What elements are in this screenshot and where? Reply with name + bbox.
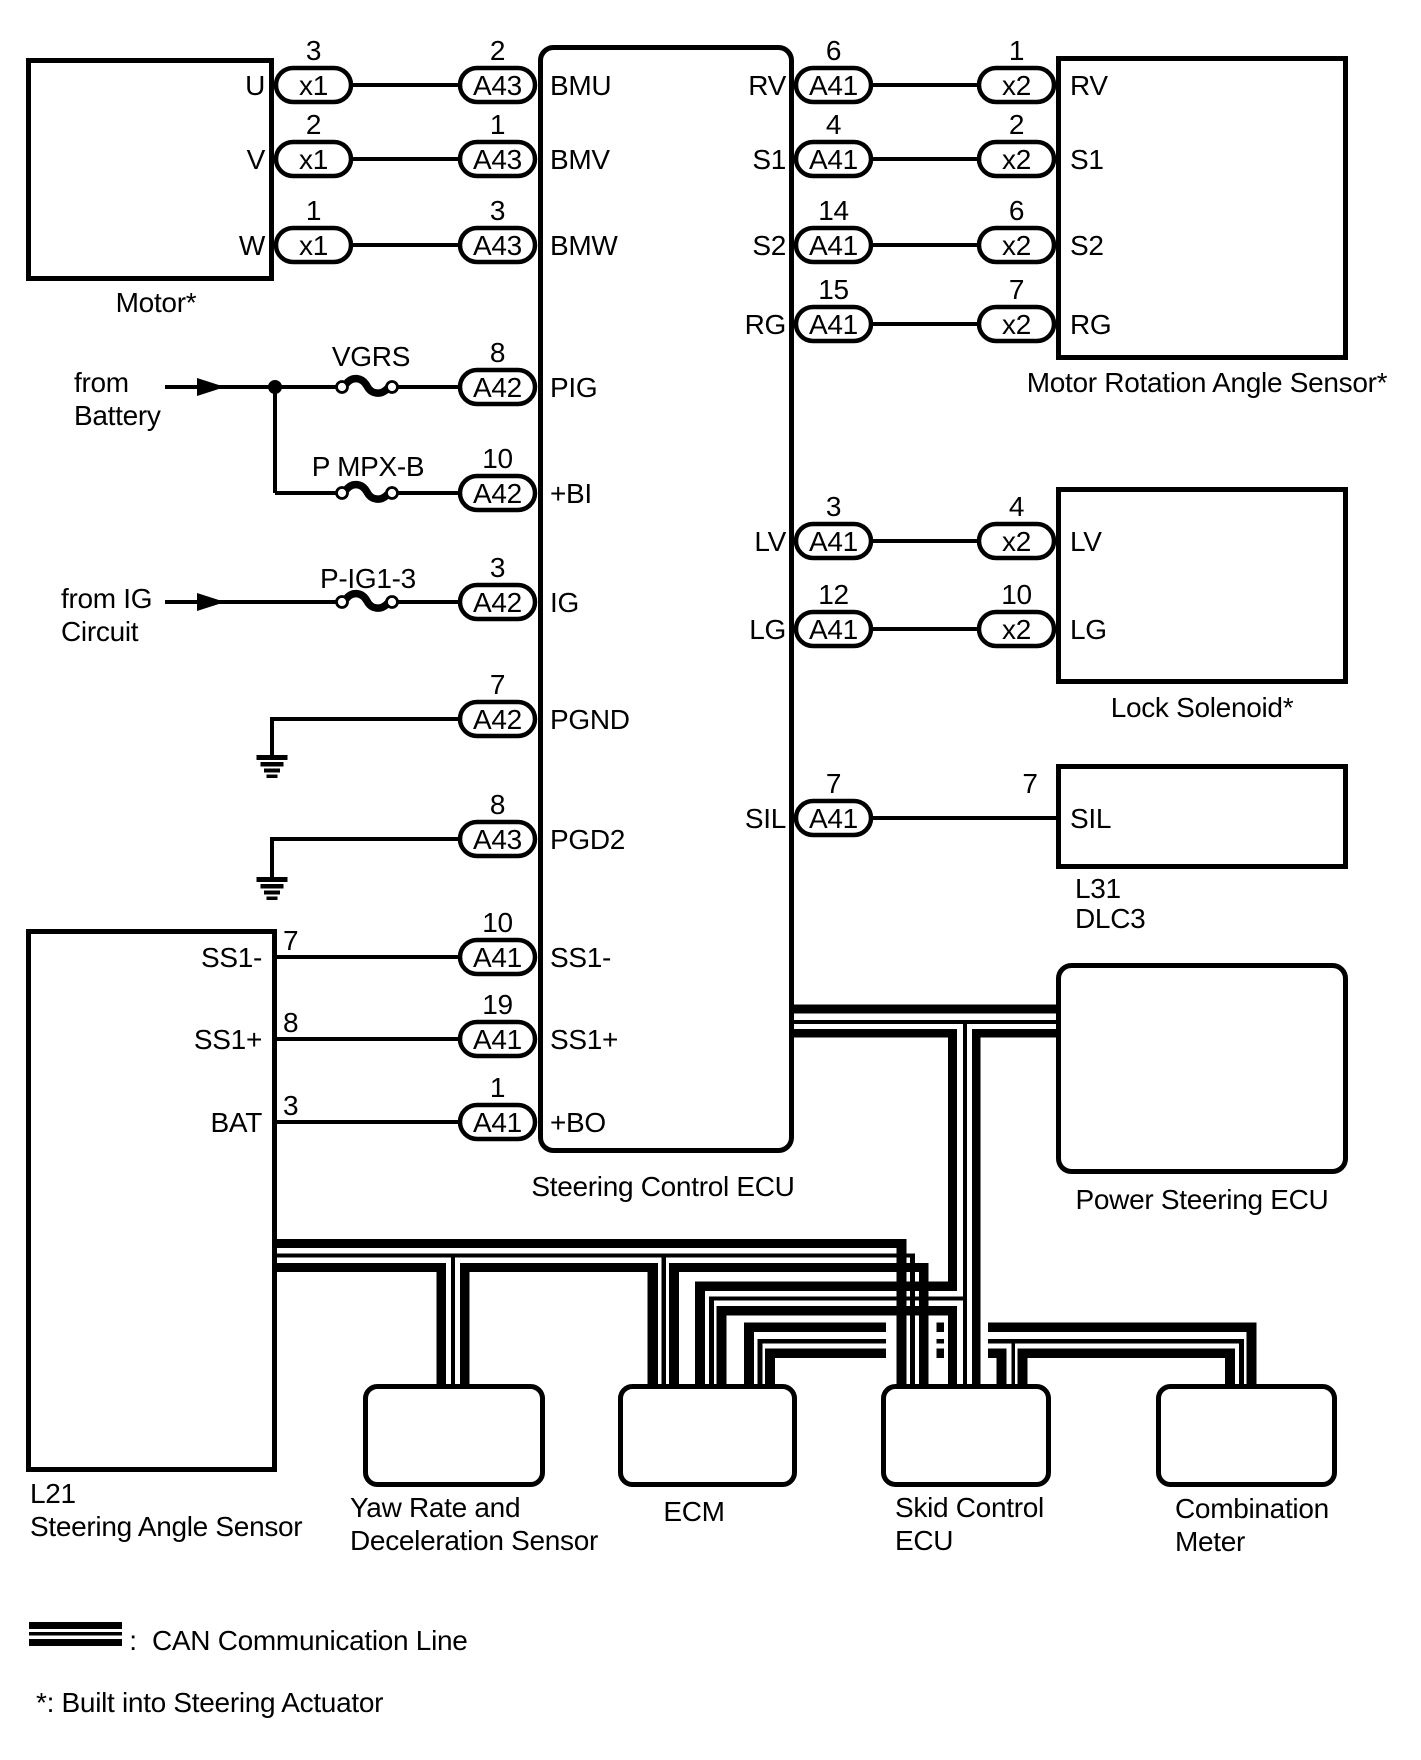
svg-text:7: 7: [1009, 274, 1024, 305]
svg-text:Lock Solenoid*: Lock Solenoid*: [1111, 692, 1294, 723]
svg-text:P MPX-B: P MPX-B: [312, 451, 425, 482]
svg-text:A41: A41: [473, 1024, 522, 1055]
svg-text:Battery: Battery: [74, 400, 161, 431]
svg-text:x1: x1: [299, 144, 328, 175]
svg-text:DLC3: DLC3: [1075, 903, 1145, 934]
svg-text:PGD2: PGD2: [550, 824, 625, 855]
svg-text:4: 4: [826, 109, 841, 140]
svg-text:A42: A42: [473, 704, 522, 735]
svg-text:BMV: BMV: [550, 144, 610, 175]
svg-text:LG: LG: [749, 614, 786, 645]
svg-text:7: 7: [1022, 768, 1037, 799]
svg-text:19: 19: [482, 989, 513, 1020]
svg-text:x2: x2: [1002, 309, 1031, 340]
svg-text:IG: IG: [550, 587, 579, 618]
svg-text:Skid Control: Skid Control: [895, 1492, 1044, 1523]
svg-text:PIG: PIG: [550, 372, 597, 403]
svg-text:1: 1: [1009, 35, 1024, 66]
svg-text:A43: A43: [473, 70, 522, 101]
svg-text:from: from: [74, 367, 129, 398]
svg-text:3: 3: [490, 552, 505, 583]
svg-text:SS1-: SS1-: [201, 942, 262, 973]
svg-text:8: 8: [490, 789, 505, 820]
svg-text:L31: L31: [1075, 873, 1121, 904]
svg-text:A42: A42: [473, 587, 522, 618]
svg-text:S2: S2: [752, 230, 786, 261]
svg-text:Motor*: Motor*: [116, 287, 197, 318]
svg-text:7: 7: [283, 925, 298, 956]
svg-text:x1: x1: [299, 230, 328, 261]
svg-text:RG: RG: [1070, 309, 1111, 340]
svg-text:P-IG1-3: P-IG1-3: [320, 563, 416, 594]
svg-text:2: 2: [1009, 109, 1024, 140]
svg-text:Deceleration Sensor: Deceleration Sensor: [350, 1525, 598, 1556]
svg-text:A42: A42: [473, 372, 522, 403]
svg-text:15: 15: [818, 274, 849, 305]
svg-text:8: 8: [283, 1007, 298, 1038]
svg-text:S1: S1: [1070, 144, 1104, 175]
svg-text:A43: A43: [473, 824, 522, 855]
svg-text:1: 1: [490, 109, 505, 140]
svg-text:SS1+: SS1+: [194, 1024, 262, 1055]
svg-text:A42: A42: [473, 478, 522, 509]
svg-text:7: 7: [826, 768, 841, 799]
svg-text:x2: x2: [1002, 144, 1031, 175]
svg-text:6: 6: [1009, 195, 1024, 226]
svg-text:3: 3: [306, 35, 321, 66]
svg-text:1: 1: [490, 1072, 505, 1103]
svg-text:10: 10: [482, 443, 513, 474]
svg-text:8: 8: [490, 337, 505, 368]
svg-text:SIL: SIL: [745, 803, 786, 834]
svg-text:x2: x2: [1002, 230, 1031, 261]
svg-text:Steering Angle Sensor: Steering Angle Sensor: [30, 1511, 302, 1542]
svg-text:A41: A41: [809, 70, 858, 101]
svg-text:LV: LV: [1070, 526, 1102, 557]
svg-text:ECM: ECM: [663, 1496, 724, 1527]
svg-text:PGND: PGND: [550, 704, 630, 735]
svg-text:S2: S2: [1070, 230, 1104, 261]
svg-text:A43: A43: [473, 144, 522, 175]
svg-text::: :: [129, 1625, 136, 1656]
svg-text:x2: x2: [1002, 70, 1031, 101]
svg-text:Motor Rotation Angle Sensor*: Motor Rotation Angle Sensor*: [1027, 367, 1388, 398]
svg-text:A41: A41: [473, 1107, 522, 1138]
svg-text:U: U: [245, 70, 265, 101]
svg-text:A41: A41: [809, 614, 858, 645]
svg-text:Power Steering ECU: Power Steering ECU: [1076, 1184, 1329, 1215]
svg-text:Circuit: Circuit: [61, 616, 139, 647]
svg-text:A41: A41: [809, 526, 858, 557]
svg-text:BMW: BMW: [550, 230, 618, 261]
svg-text:6: 6: [826, 35, 841, 66]
svg-text:Steering Control ECU: Steering Control ECU: [531, 1171, 794, 1202]
svg-text:A41: A41: [809, 144, 858, 175]
svg-text:BMU: BMU: [550, 70, 611, 101]
svg-text:1: 1: [306, 195, 321, 226]
svg-text:4: 4: [1009, 491, 1024, 522]
svg-text:LV: LV: [754, 526, 786, 557]
svg-text:SS1-: SS1-: [550, 942, 611, 973]
svg-text:L21: L21: [30, 1478, 76, 1509]
svg-text:RV: RV: [748, 70, 786, 101]
svg-text:ECU: ECU: [895, 1525, 953, 1556]
svg-text:x2: x2: [1002, 526, 1031, 557]
svg-text:3: 3: [283, 1090, 298, 1121]
svg-text:7: 7: [490, 669, 505, 700]
svg-text:+BI: +BI: [550, 478, 592, 509]
svg-text:LG: LG: [1070, 614, 1107, 645]
svg-text:x1: x1: [299, 70, 328, 101]
svg-text:+BO: +BO: [550, 1107, 606, 1138]
svg-text:2: 2: [490, 35, 505, 66]
svg-text:A41: A41: [809, 803, 858, 834]
svg-text:BAT: BAT: [211, 1107, 263, 1138]
svg-text:10: 10: [1001, 579, 1032, 610]
svg-text:SS1+: SS1+: [550, 1024, 618, 1055]
svg-text:from IG: from IG: [61, 583, 152, 614]
svg-text:A43: A43: [473, 230, 522, 261]
svg-text:A41: A41: [809, 230, 858, 261]
svg-text:x2: x2: [1002, 614, 1031, 645]
svg-text:S1: S1: [752, 144, 786, 175]
svg-text:RV: RV: [1070, 70, 1108, 101]
svg-text:SIL: SIL: [1070, 803, 1111, 834]
svg-text:W: W: [239, 230, 266, 261]
svg-text:12: 12: [818, 579, 849, 610]
svg-text:CAN Communication Line: CAN Communication Line: [152, 1625, 468, 1656]
svg-text:*: Built into Steering Actuato: *: Built into Steering Actuator: [36, 1687, 383, 1718]
svg-text:A41: A41: [473, 942, 522, 973]
svg-text:RG: RG: [745, 309, 786, 340]
svg-text:3: 3: [490, 195, 505, 226]
svg-text:Yaw Rate and: Yaw Rate and: [350, 1492, 520, 1523]
svg-text:14: 14: [818, 195, 849, 226]
svg-text:Meter: Meter: [1175, 1526, 1245, 1557]
svg-text:Combination: Combination: [1175, 1493, 1329, 1524]
svg-text:2: 2: [306, 109, 321, 140]
svg-text:VGRS: VGRS: [332, 341, 410, 372]
svg-text:10: 10: [482, 907, 513, 938]
svg-text:3: 3: [826, 491, 841, 522]
svg-text:V: V: [247, 144, 266, 175]
svg-text:A41: A41: [809, 309, 858, 340]
